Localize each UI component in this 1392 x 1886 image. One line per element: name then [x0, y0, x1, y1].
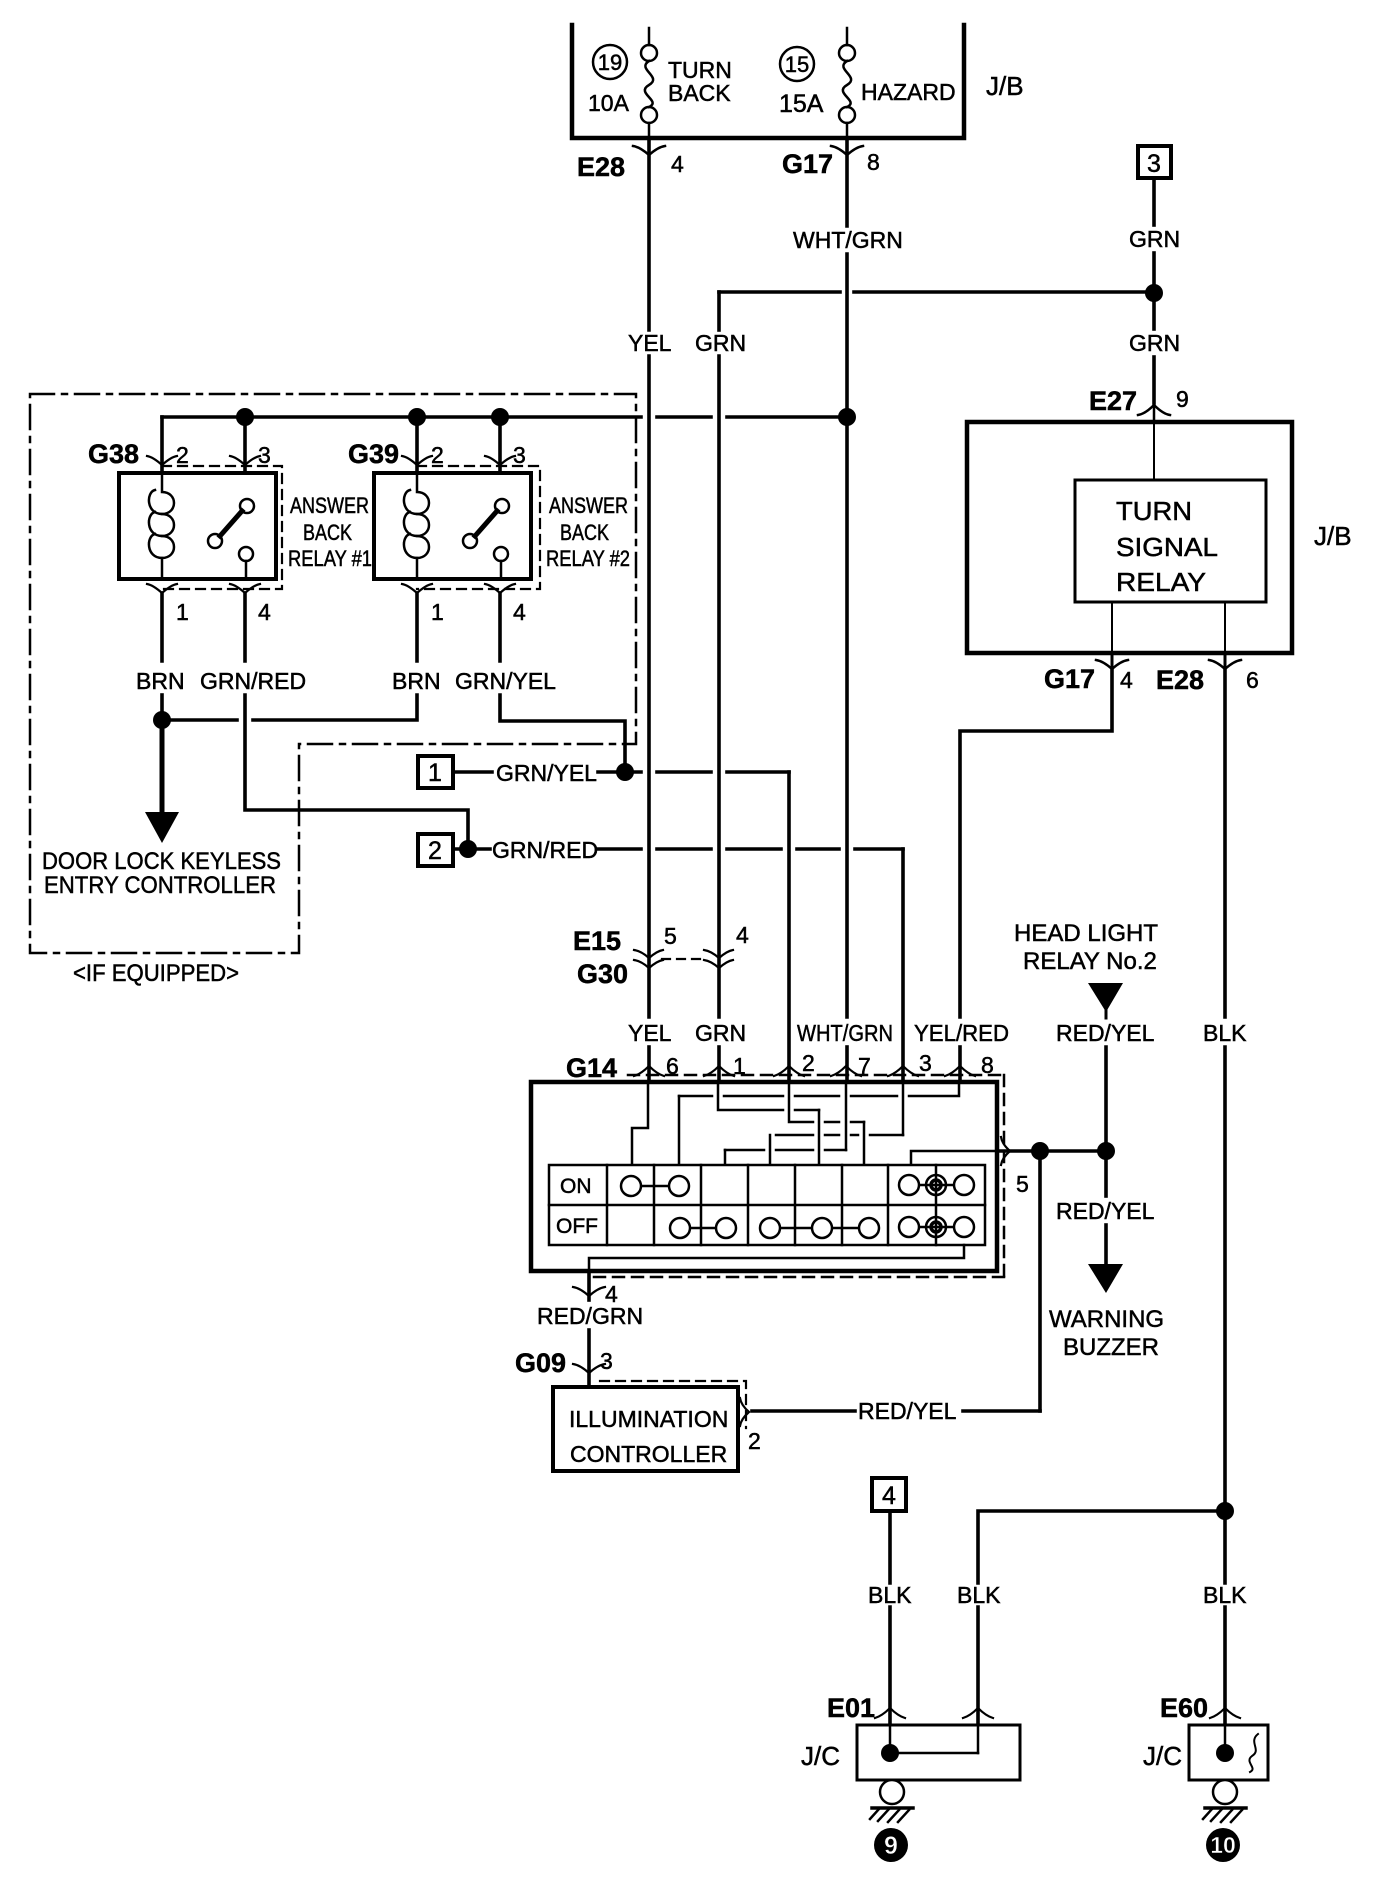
node G39 pin2 top [408, 408, 426, 426]
connector E01 mark (right wire) [963, 1708, 993, 1718]
node G39 pin3 top [491, 408, 509, 426]
wire RED/YEL down to node [1104, 1047, 1108, 1151]
svg-text:GRN/YEL: GRN/YEL [455, 668, 556, 694]
numbered terminal 4 (square) [872, 1478, 906, 1511]
svg-text:10A: 10A [588, 90, 630, 116]
illumination controller caption [569, 1406, 728, 1467]
relay G39 coil [404, 473, 429, 579]
svg-text:6: 6 [1246, 667, 1259, 693]
connector G09 pin 3 [573, 1364, 605, 1373]
dashed link between E15/G30 connector marks [662, 958, 706, 960]
connector G14 mark pin 2 [774, 1066, 804, 1076]
relay G39 pin2 connector mark [402, 456, 432, 465]
svg-text:BLK: BLK [957, 1582, 1001, 1608]
wire GRN (corner at y292 down to G14 pin 1) [717, 292, 721, 1082]
svg-text:HAZARD: HAZARD [861, 79, 956, 105]
switch pin5 output mark [1001, 1137, 1010, 1165]
wire WHT/GRN (G17/8 down) [845, 138, 849, 1082]
relay G38 pin2 wire [160, 417, 164, 473]
svg-text:9: 9 [884, 1832, 898, 1860]
relay G39 caption ANSWER BACK RELAY #2 [546, 493, 630, 571]
switch feed wire pin3 GRN/RED to OFF col3 [770, 1082, 903, 1165]
svg-text:E27: E27 [1089, 386, 1137, 416]
ground symbol E01 [870, 1780, 913, 1822]
connector E27 pin 9 [1138, 403, 1170, 422]
svg-text:RED/YEL: RED/YEL [858, 1398, 957, 1424]
connector G14 mark pin 7 [831, 1066, 861, 1076]
wire GRN/RED from G38 pin4 [245, 593, 468, 841]
fuse F15 circled label [780, 47, 814, 81]
illumination controller pin 2 mark [740, 1398, 749, 1426]
svg-text:9: 9 [1176, 386, 1189, 412]
svg-text:8: 8 [981, 1052, 994, 1078]
connector G14 mark pin 1 [704, 1066, 734, 1076]
svg-text:4: 4 [258, 599, 271, 625]
wire RED/YEL from controller pin2 to buzzer node [752, 1151, 1040, 1411]
relay G38 pin4 connector mark [230, 584, 260, 593]
svg-text:J/C: J/C [801, 1741, 840, 1771]
wire RED/YEL down to warning buzzer [1104, 1151, 1108, 1264]
junction connector E60 box [1189, 1725, 1268, 1780]
svg-text:4: 4 [736, 922, 749, 948]
svg-text:3: 3 [258, 442, 271, 468]
svg-text:G30: G30 [577, 959, 628, 989]
arrow to door lock controller [145, 720, 179, 843]
OFF row contact pair [670, 1218, 736, 1238]
svg-text:TURN: TURN [1116, 496, 1192, 526]
connector G17 pin 8 [831, 146, 863, 155]
wire GRN from box 3 down to E27 [1152, 178, 1156, 403]
relay G38 caption ANSWER BACK RELAY #1 [288, 493, 372, 571]
warning buzzer caption [1049, 1306, 1164, 1361]
switch feed wire pin7 WHT/GRN to OFF col2 [725, 1082, 846, 1165]
wire YEL (E28/4 down to G14 pin 6) [647, 138, 651, 1082]
svg-text:E60: E60 [1160, 1693, 1208, 1723]
svg-text:3: 3 [1147, 150, 1161, 178]
connector E28 pin 6 (below J/B) [1209, 653, 1241, 669]
wire bus y417 (relay supply) to WHT/GRN node [162, 415, 847, 419]
svg-text:HEAD LIGHT: HEAD LIGHT [1014, 920, 1158, 947]
node RED/YEL branch left [1031, 1142, 1049, 1160]
ON row contact trio with through terminal [899, 1175, 974, 1195]
node row2 junction [459, 840, 477, 858]
svg-text:15: 15 [785, 52, 809, 77]
svg-text:19: 19 [598, 50, 622, 75]
turn signal relay text [1116, 496, 1218, 597]
svg-text:GRN: GRN [695, 1020, 746, 1046]
svg-text:DOOR LOCK KEYLESS: DOOR LOCK KEYLESS [42, 848, 281, 875]
arrow from head light relay No.2 [1088, 983, 1123, 1018]
node RED/YEL branch right [1097, 1142, 1115, 1160]
svg-text:ANSWER: ANSWER [290, 493, 369, 518]
svg-text:RELAY #2: RELAY #2 [546, 546, 630, 571]
svg-text:GRN/RED: GRN/RED [492, 837, 598, 863]
svg-text:E15: E15 [573, 926, 621, 956]
node BLK branch [1216, 1502, 1234, 1520]
junction block J/B (turn signal relay box) [967, 422, 1292, 653]
fuse F19 name TURN BACK [668, 57, 732, 106]
svg-text:WARNING: WARNING [1049, 1306, 1164, 1333]
svg-text:BLK: BLK [868, 1582, 912, 1608]
svg-text:4: 4 [882, 1482, 896, 1510]
svg-text:CONTROLLER: CONTROLLER [570, 1441, 727, 1467]
E01 inner wire [890, 1725, 978, 1753]
OFF row contact trio [760, 1218, 879, 1238]
svg-text:J/B: J/B [1314, 521, 1352, 551]
relay G39 box [374, 473, 531, 579]
svg-text:ANSWER: ANSWER [549, 493, 628, 518]
svg-text:J/B: J/B [986, 71, 1024, 101]
svg-text:1: 1 [431, 599, 444, 625]
svg-text:G09: G09 [515, 1348, 566, 1378]
wire YEL/RED from G17/4 down-left-down to G14 pin 8 [960, 669, 1112, 1082]
relay G38 switch contacts [208, 499, 254, 579]
svg-text:BACK: BACK [668, 80, 731, 106]
svg-text:E01: E01 [827, 1693, 875, 1723]
switch output wire to pin 5 (right side) [911, 1151, 997, 1165]
connector E15/G30 mark on YEL wire, pin 5 [634, 950, 663, 968]
ground reference 9 (filled circle) [874, 1828, 908, 1862]
svg-text:GRN: GRN [1129, 226, 1180, 252]
switch feed wire pin8 YEL/RED to ON col2 [679, 1082, 959, 1165]
connector G14 dashed right edge [1003, 1075, 1006, 1277]
switch bottom collector wire to pin 4 [589, 1245, 964, 1271]
svg-text:GRN/RED: GRN/RED [200, 668, 306, 694]
svg-text:4: 4 [1120, 667, 1133, 693]
relay G38 pin2 connector mark [147, 456, 177, 465]
svg-text:2: 2 [176, 442, 189, 468]
relay G39 pin2 wire [415, 417, 419, 473]
connector G14 mark pin 8 [945, 1066, 975, 1076]
ground reference 10 (filled circle) [1206, 1828, 1240, 1862]
node BRN junction [153, 711, 171, 729]
relay G38 pin1 connector mark [147, 584, 177, 593]
fuse F19 symbol [641, 28, 657, 138]
switch feed wire pin1 GRN to OFF col4 [718, 1082, 819, 1165]
wire GRN/YEL from G39 pin4 to row1 node [500, 593, 625, 764]
relay G38 coil [149, 473, 174, 579]
turn/hazard switch box [531, 1082, 997, 1271]
svg-text:J/C: J/C [1143, 1741, 1182, 1771]
svg-text:GRN/YEL: GRN/YEL [496, 760, 597, 786]
head light relay No.2 caption [1014, 920, 1158, 975]
svg-text:1: 1 [428, 759, 442, 787]
svg-text:G38: G38 [88, 439, 139, 469]
svg-text:15A: 15A [779, 90, 824, 118]
svg-text:7: 7 [858, 1053, 871, 1079]
connector E01 mark (left wire) [875, 1708, 905, 1718]
connector G14 mark pin 6 [634, 1066, 664, 1076]
svg-text:BRN: BRN [136, 668, 185, 694]
connector E60 mark [1210, 1708, 1240, 1718]
svg-text:RELAY: RELAY [1116, 567, 1206, 597]
svg-text:BACK: BACK [303, 520, 352, 545]
svg-text:<IF EQUIPPED>: <IF EQUIPPED> [73, 960, 239, 987]
relay G39 dashed connector box [417, 466, 540, 589]
relay G38 dashed connector box [162, 466, 282, 589]
junction block J/B (top fuse box) [572, 25, 964, 138]
switch contact table [549, 1165, 985, 1245]
svg-text:3: 3 [600, 1348, 613, 1374]
wire BLK from E28/6 straight down [1223, 669, 1227, 1725]
relay G39 switch contacts [463, 499, 509, 579]
connector G14 dashed bottom edge [594, 1276, 1004, 1279]
illumination controller dashed connector outline [600, 1381, 746, 1428]
svg-text:RED/YEL: RED/YEL [1056, 1198, 1155, 1224]
node junction on GRN wire x1154 y293 [1145, 284, 1163, 302]
svg-text:G17: G17 [1044, 664, 1095, 694]
relay G39 pin3 connector mark [485, 456, 515, 465]
svg-text:1: 1 [176, 599, 189, 625]
ON row contact pair [621, 1176, 689, 1196]
svg-text:RED/YEL: RED/YEL [1056, 1020, 1155, 1046]
relay G39 pin3 wire [498, 417, 502, 504]
svg-text:G39: G39 [348, 439, 399, 469]
connector E28 pin 4 [633, 146, 665, 155]
relay G38 box [119, 473, 276, 579]
svg-text:G14: G14 [566, 1053, 617, 1083]
wire GRN/YEL row 1 [453, 772, 789, 1082]
svg-text:3: 3 [513, 442, 526, 468]
wire into relay (inside J/B) [1153, 422, 1155, 480]
svg-text:YEL: YEL [628, 1020, 672, 1046]
svg-text:BLK: BLK [1203, 1020, 1247, 1046]
relay G38 pin3 connector mark [230, 456, 260, 465]
svg-text:OFF: OFF [556, 1215, 598, 1238]
svg-text:2: 2 [431, 442, 444, 468]
OFF row contact trio with through terminal [899, 1217, 974, 1237]
arrow to warning buzzer [1088, 1264, 1123, 1293]
fuse F15 symbol [839, 28, 855, 138]
svg-text:G17: G17 [782, 149, 833, 179]
svg-text:4: 4 [513, 599, 526, 625]
connector G14 dashed line [628, 1074, 1004, 1077]
connector G14 mark pin 4 (below box) [573, 1287, 605, 1296]
node on WHT/GRN wire y417 [838, 408, 856, 426]
svg-text:1: 1 [733, 1053, 746, 1079]
svg-text:YEL: YEL [628, 330, 672, 356]
svg-text:ENTRY CONTROLLER: ENTRY CONTROLLER [44, 872, 276, 899]
wire horizontal y292 from GRN corner to node on wire 3 [719, 290, 1154, 294]
svg-text:2: 2 [428, 837, 442, 865]
svg-text:SIGNAL: SIGNAL [1116, 532, 1218, 562]
wire BLK from terminal 4 to E01 J/C [888, 1511, 892, 1725]
switch feed wire pin2 GRN/YEL to OFF col5 [789, 1082, 864, 1165]
wire BRN from G39 pin1 to node [162, 593, 417, 720]
svg-text:YEL/RED: YEL/RED [914, 1020, 1009, 1046]
E60 inner squiggle [1249, 1734, 1258, 1772]
svg-text:5: 5 [664, 923, 677, 949]
numbered terminal 2 (square) [418, 834, 453, 866]
svg-text:BRN: BRN [392, 668, 441, 694]
dashed outline IF EQUIPPED box [30, 394, 636, 953]
node G38 pin3 top [236, 408, 254, 426]
illumination controller box [553, 1387, 738, 1471]
svg-text:BLK: BLK [1203, 1582, 1247, 1608]
ground symbol E60 [1203, 1780, 1246, 1822]
wire RED/GRN below switch (pin 4) [587, 1271, 591, 1387]
svg-text:RELAY #1: RELAY #1 [288, 546, 372, 571]
svg-text:3: 3 [919, 1050, 932, 1076]
junction connector E01 box [857, 1725, 1020, 1780]
svg-text:8: 8 [867, 149, 880, 175]
relay G39 pin1 connector mark [402, 584, 432, 593]
wire GRN/RED row 2 [453, 849, 903, 1082]
svg-text:BUZZER: BUZZER [1063, 1334, 1159, 1361]
svg-text:RED/GRN: RED/GRN [537, 1303, 643, 1329]
svg-text:4: 4 [671, 151, 684, 177]
svg-text:BACK: BACK [560, 520, 609, 545]
svg-text:WHT/GRN: WHT/GRN [797, 1020, 893, 1046]
svg-text:2: 2 [748, 1428, 761, 1454]
connector G17 pin 4 (below J/B) [1096, 653, 1128, 669]
turn signal relay box [1075, 480, 1266, 602]
svg-text:2: 2 [802, 1050, 815, 1076]
relay G39 pin4 connector mark [485, 584, 515, 593]
svg-text:ILLUMINATION: ILLUMINATION [569, 1406, 728, 1432]
wire from switch pin 5 to nodes [997, 1149, 1106, 1153]
numbered terminal 1 (square) [418, 756, 453, 788]
connector E15/G30 mark on GRN wire, pin 4 [704, 950, 733, 968]
relay G38 pin3 wire [243, 417, 247, 504]
connector G14 mark pin 3 [888, 1066, 918, 1076]
svg-text:GRN: GRN [1129, 330, 1180, 356]
node row1 junction [616, 763, 634, 781]
fuse F19 circled label [593, 45, 627, 79]
svg-text:RELAY No.2: RELAY No.2 [1023, 948, 1157, 975]
svg-text:WHT/GRN: WHT/GRN [793, 227, 903, 253]
E60 inner wire [1224, 1725, 1227, 1753]
svg-text:E28: E28 [1156, 665, 1204, 695]
door lock keyless entry controller caption [42, 848, 281, 899]
svg-text:5: 5 [1016, 1171, 1029, 1197]
svg-text:E28: E28 [577, 152, 625, 182]
node E01 inner [881, 1744, 899, 1762]
switch feed wire pin6 YEL to ON col1 [632, 1082, 648, 1165]
wire BLK branch to E01 J/C [978, 1511, 1225, 1725]
wire BRN from G38 pin1 [160, 593, 164, 721]
svg-text:ON: ON [560, 1175, 592, 1198]
relay pin wires inside J/B [1112, 602, 1225, 653]
node E60 inner [1216, 1744, 1234, 1762]
through terminal vertical wire [935, 1165, 938, 1245]
connector box 3 (top right) [1138, 146, 1171, 178]
svg-text:GRN: GRN [695, 330, 746, 356]
svg-text:10: 10 [1210, 1832, 1236, 1858]
svg-text:6: 6 [666, 1053, 679, 1079]
